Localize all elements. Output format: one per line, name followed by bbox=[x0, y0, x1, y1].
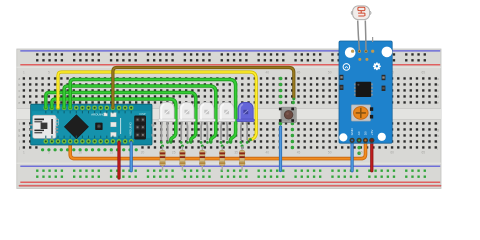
LDR pads bbox=[351, 50, 374, 61]
gear icon bbox=[373, 62, 381, 70]
svg-text:j: j bbox=[18, 146, 20, 150]
svg-text:1: 1 bbox=[23, 70, 25, 74]
LED2 (white) bbox=[178, 102, 195, 121]
svg-text:1: 1 bbox=[23, 151, 25, 155]
green wire D-pin4 to LED3 column bbox=[64, 86, 216, 142]
resistor R2 bbox=[181, 145, 184, 148]
side SMD parts bbox=[340, 75, 386, 91]
green wire D-pin1 to LED2 column bbox=[46, 93, 196, 142]
reset button bbox=[95, 123, 102, 130]
svg-text:ARDUINO: ARDUINO bbox=[91, 112, 106, 116]
svg-text:5: 5 bbox=[48, 151, 50, 155]
svg-text:j: j bbox=[436, 146, 438, 150]
svg-text:f: f bbox=[437, 122, 438, 126]
bottom rail red line bbox=[20, 181, 440, 183]
svg-text:+5V: +5V bbox=[370, 129, 374, 136]
red wire sensor VCC to bottom rail bbox=[370, 142, 373, 171]
red power jumper wire (bottom, full width) bbox=[20, 185, 441, 187]
svg-text:25: 25 bbox=[172, 151, 176, 155]
blue wire Nano GND to bottom rail bbox=[130, 143, 133, 171]
svg-text:g: g bbox=[18, 128, 20, 132]
LDR sensor module (photoresistor board) bbox=[339, 41, 392, 143]
svg-text:c: c bbox=[18, 89, 20, 93]
resistor R4 bbox=[221, 145, 224, 148]
svg-text:35: 35 bbox=[234, 151, 238, 155]
resistors R1-R5 (220 ohm) bbox=[160, 145, 166, 171]
LED legs and connection dots bbox=[161, 121, 247, 141]
green wire D-pin2 to LED1 column bbox=[52, 99, 176, 142]
top rail blue line bbox=[20, 50, 440, 52]
IC chip LM393 bbox=[354, 82, 372, 97]
svg-text:ARDUINO: ARDUINO bbox=[129, 121, 133, 136]
ICSP header bbox=[134, 112, 154, 140]
svg-text:45: 45 bbox=[297, 151, 301, 155]
yellow wire D-pin3 to blue LED column bbox=[58, 72, 256, 139]
wire end connection dots bbox=[169, 138, 252, 144]
LED4 (white) bbox=[218, 102, 235, 121]
svg-text:a: a bbox=[437, 77, 439, 81]
svg-text:h: h bbox=[437, 134, 439, 138]
svg-text:d: d bbox=[437, 95, 439, 99]
LED3 (white) bbox=[198, 102, 215, 121]
Arduino Nano U1 bbox=[29, 104, 154, 145]
resistor R3 bbox=[201, 145, 204, 148]
svg-text:5: 5 bbox=[48, 70, 50, 74]
red wire Nano 5V to bottom rail bbox=[117, 143, 120, 178]
SMD components bbox=[104, 113, 116, 137]
svg-text:60: 60 bbox=[390, 151, 394, 155]
svg-text:g: g bbox=[437, 128, 439, 132]
svg-text:65: 65 bbox=[422, 70, 426, 74]
blue wire sensor AO to bottom rail bbox=[351, 142, 354, 171]
bottom rail blue line bbox=[20, 165, 440, 167]
svg-text:e: e bbox=[437, 101, 439, 105]
svg-text:D0: D0 bbox=[364, 131, 368, 135]
breadboard holes bbox=[23, 53, 437, 148]
top rail red line bbox=[20, 64, 440, 66]
svg-text:50: 50 bbox=[328, 70, 332, 74]
svg-text:A0: A0 bbox=[357, 131, 361, 135]
svg-text:40: 40 bbox=[266, 70, 270, 74]
svg-text:e: e bbox=[18, 101, 20, 105]
svg-text:65: 65 bbox=[422, 151, 426, 155]
pin labels bbox=[350, 128, 374, 136]
sensor module pins bbox=[350, 138, 375, 143]
LED5 (blue) bbox=[237, 102, 255, 121]
potentiometer bbox=[351, 105, 373, 121]
breadboard body bbox=[17, 49, 441, 189]
svg-text:ICSP: ICSP bbox=[140, 112, 146, 116]
brown wire Nano 5V-area pad to pushbutton row bbox=[113, 68, 294, 108]
green wire D-pin5 to LED4 column bbox=[70, 80, 235, 142]
svg-text:h: h bbox=[18, 134, 20, 138]
svg-text:a: a bbox=[18, 77, 20, 81]
mounting holes bbox=[345, 47, 356, 58]
svg-text:20: 20 bbox=[141, 151, 145, 155]
green connected holes (bottom rails) bbox=[36, 170, 426, 178]
blue wire pushbutton to bottom rail bbox=[279, 127, 282, 171]
brown wire end dot bbox=[292, 98, 295, 101]
logo circle bbox=[343, 64, 350, 71]
svg-text:b: b bbox=[18, 83, 20, 87]
USB mini-B connector bbox=[29, 115, 58, 138]
pushbutton S1 bbox=[279, 107, 296, 122]
svg-text:f: f bbox=[19, 122, 20, 126]
board labels bbox=[18, 70, 439, 154]
svg-text:50: 50 bbox=[328, 151, 332, 155]
resistor R1 bbox=[161, 145, 164, 148]
orange wire (Nano bottom pad to sensor module GND pin) bbox=[70, 141, 365, 159]
svg-text:15: 15 bbox=[110, 151, 114, 155]
svg-text:10: 10 bbox=[78, 151, 82, 155]
LDR photoresistor bbox=[351, 6, 373, 50]
svg-text:55: 55 bbox=[359, 151, 363, 155]
ATmega328 chip (rotated) bbox=[64, 115, 88, 139]
svg-text:b: b bbox=[437, 83, 439, 87]
Nano pin pads bbox=[43, 105, 133, 143]
resistor R5 bbox=[241, 145, 244, 148]
svg-text:45: 45 bbox=[297, 70, 301, 74]
svg-text:d: d bbox=[18, 95, 20, 99]
svg-text:40: 40 bbox=[266, 151, 270, 155]
LED1 (white) bbox=[158, 102, 175, 121]
svg-text:c: c bbox=[437, 89, 439, 93]
svg-text:GND: GND bbox=[350, 128, 354, 136]
